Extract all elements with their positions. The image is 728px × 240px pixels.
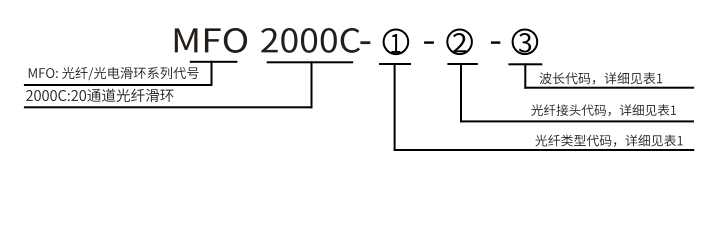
label 3 text: wavelength code <box>540 72 663 84</box>
label 5 text: fiber type code <box>535 135 682 147</box>
underline of label 5 <box>394 149 695 151</box>
leader from circle 1 down to label 5 <box>394 63 396 151</box>
tick bar under circle 2 <box>447 63 478 65</box>
tick bar under 2000C <box>267 61 354 63</box>
title text MFO <box>175 28 247 53</box>
underline of label 2 <box>24 106 313 108</box>
circled number 2 <box>447 30 472 55</box>
title text 2000C <box>261 28 360 53</box>
label 2 text: 2000C 20-channel description <box>26 89 173 102</box>
label 4 text: fiber connector code <box>531 104 676 116</box>
leader from circle 2 down to label 4 <box>460 63 462 122</box>
tick bar under MFO <box>190 61 238 63</box>
leader from MFO down to label 1 <box>211 61 213 86</box>
dash between 1 and 2 <box>424 41 434 43</box>
underline of label 1 <box>24 84 213 86</box>
underline of label 4 <box>460 120 694 122</box>
circled number 1 <box>384 30 409 55</box>
title hyphen after 2000C <box>360 41 370 44</box>
circled number 3 <box>513 30 538 55</box>
leader from 2000C down to label 2 <box>311 61 313 108</box>
dash between 2 and 3 <box>491 41 500 43</box>
underline of label 3 <box>524 87 694 89</box>
label 1 text: MFO series description <box>29 67 199 80</box>
leader from circle 3 down to label 3 <box>524 63 526 88</box>
tick bar under circle 1 <box>379 63 411 65</box>
tick bar under circle 3 <box>508 63 542 65</box>
